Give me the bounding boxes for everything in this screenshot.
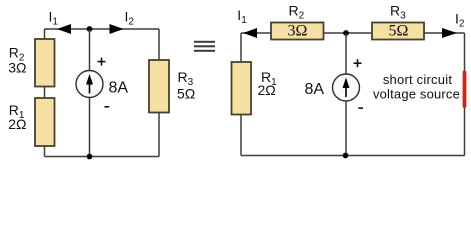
node dot top (left circuit) — [87, 26, 93, 32]
minus sign (right circuit) — [358, 107, 363, 109]
resistor R1 (right circuit) — [232, 62, 252, 115]
wire right branch upper — [158, 29, 160, 61]
resistor R2 horizontal (right circuit) — [271, 23, 324, 40]
plus sign (right circuit) — [354, 62, 362, 64]
svg-text:3Ω: 3Ω — [8, 60, 26, 76]
wire right branch (right circuit) — [464, 33, 466, 156]
node dot bottom (left circuit) — [87, 154, 93, 160]
svg-text:5Ω: 5Ω — [177, 86, 195, 102]
wire left branch vertical top — [44, 29, 46, 40]
equivalence symbol — [194, 41, 215, 43]
svg-text:8A: 8A — [109, 80, 129, 97]
wire bottom right-circuit — [241, 155, 465, 157]
resistor R2 (left circuit) — [35, 39, 55, 87]
current arrow I2 (right circuit) — [442, 28, 457, 38]
wire top right-circuit — [241, 32, 465, 34]
shorted voltage source (red bar) — [463, 71, 467, 109]
current source 8A (right circuit) — [333, 74, 360, 101]
current arrow I1 (left circuit) — [57, 24, 71, 34]
plus sign — [98, 61, 106, 63]
svg-text:5Ω: 5Ω — [389, 23, 409, 40]
wire right branch lower — [158, 113, 160, 157]
current arrow I2 (left circuit) — [110, 24, 124, 34]
minus sign — [105, 106, 110, 108]
svg-text:2Ω: 2Ω — [8, 116, 26, 132]
wire left branch (right circuit) lower — [240, 115, 242, 156]
wire left branch (right circuit) upper — [240, 33, 242, 63]
resistor R3 (left circuit) — [149, 60, 169, 113]
wire middle branch upper — [89, 29, 91, 71]
resistor R3 horizontal (right circuit) — [372, 23, 424, 40]
wire between R2 and R1 — [44, 87, 46, 99]
svg-text:short circuit: short circuit — [383, 72, 452, 87]
wire middle branch (right circuit) upper — [345, 33, 347, 74]
resistor R1 (left circuit) — [35, 98, 55, 146]
wire middle branch lower — [89, 98, 91, 157]
svg-text:voltage source: voltage source — [373, 87, 460, 102]
wire middle branch (right circuit) lower — [345, 101, 347, 156]
svg-text:3Ω: 3Ω — [288, 23, 308, 40]
svg-text:8A: 8A — [305, 81, 325, 98]
wire top left-circuit — [45, 28, 160, 30]
wire left branch vertical bottom — [44, 146, 46, 157]
svg-text:2Ω: 2Ω — [258, 82, 276, 98]
current source 8A (left circuit) — [76, 71, 103, 98]
node dot top (right circuit) — [343, 30, 349, 36]
wire bottom left-circuit — [45, 156, 160, 158]
current arrow I1 (right circuit) — [243, 28, 257, 38]
node dot bottom (right circuit) — [343, 153, 349, 159]
